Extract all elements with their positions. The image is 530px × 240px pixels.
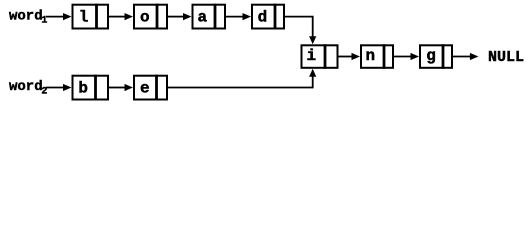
wire node a to node d	[226, 13, 251, 20]
node i	[302, 44, 338, 69]
wire word2 to node b	[46, 84, 72, 91]
svg-text:d: d	[258, 8, 268, 26]
wire node o to node a	[168, 13, 192, 20]
svg-text:n: n	[365, 47, 375, 65]
node d	[252, 4, 284, 30]
node g	[420, 44, 452, 69]
label word1	[9, 8, 47, 26]
node b	[73, 75, 109, 101]
wire word1 to node l	[46, 13, 72, 20]
node a	[193, 4, 226, 30]
svg-text:e: e	[140, 79, 150, 97]
svg-text:g: g	[426, 47, 436, 65]
svg-text:b: b	[78, 79, 88, 97]
wire node n to node g	[394, 53, 419, 60]
svg-text:l: l	[79, 8, 89, 26]
wire node b to node e	[109, 84, 133, 91]
wire node e to node i (right then up)	[168, 69, 316, 88]
label word2	[9, 79, 47, 98]
node n	[361, 44, 393, 69]
wire node d to node i (right then down)	[285, 17, 316, 45]
node o	[134, 4, 167, 30]
wire node i to node n	[339, 53, 361, 60]
svg-text:i: i	[306, 47, 316, 65]
svg-text:o: o	[140, 8, 150, 26]
svg-text:word: word	[9, 8, 43, 24]
wire node l to node o	[109, 13, 133, 20]
node e	[134, 75, 167, 101]
svg-text:word: word	[9, 79, 43, 95]
wire node g to NULL	[453, 53, 478, 60]
node l	[73, 4, 109, 30]
svg-text:a: a	[197, 8, 207, 26]
svg-text:NULL: NULL	[488, 49, 524, 66]
